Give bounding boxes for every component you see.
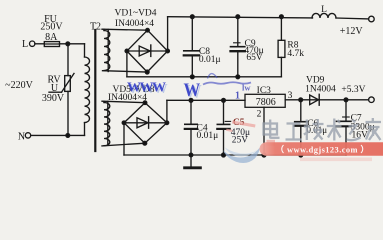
svg-text:3: 3 <box>288 91 293 101</box>
label VD5~VD8 <box>108 85 155 103</box>
label C9 value <box>244 39 263 63</box>
svg-text:390V: 390V <box>42 93 65 104</box>
watermark Chinese characters <box>264 118 382 141</box>
svg-text:7806: 7806 <box>256 97 276 108</box>
svg-text:4.7k: 4.7k <box>287 49 304 59</box>
svg-text:IC3: IC3 <box>257 86 272 96</box>
capacitor C4 <box>185 100 197 155</box>
node C9 bottom <box>236 75 240 79</box>
capacitor C8 <box>184 17 199 77</box>
wire bridge1 plus to top rail <box>167 17 169 51</box>
svg-text:1N4004: 1N4004 <box>305 85 336 95</box>
transformer T2 core <box>94 30 96 151</box>
bridge rectifier VD1~VD4 <box>125 28 169 74</box>
node fuse/RV junction <box>66 42 70 46</box>
bridge rectifier VD5~VD8 <box>122 101 169 145</box>
varistor RV lead bottom <box>67 91 69 135</box>
svg-text:65V: 65V <box>246 53 263 63</box>
wire fuse to transformer <box>60 44 85 57</box>
wire top rail <box>168 17 313 18</box>
svg-text:L: L <box>22 39 28 50</box>
wire inductor to +12V terminal <box>336 17 369 20</box>
wire IC3 pin2 to ground rail <box>263 107 265 155</box>
svg-text:lw: lw <box>242 83 251 93</box>
svg-text:25V: 25V <box>232 135 249 145</box>
node IC3 pin2 bottom <box>262 153 266 157</box>
node R8 top <box>280 15 284 19</box>
watermark pink smudge <box>300 158 372 162</box>
label VD1~VD4 <box>114 8 156 29</box>
node C8 bottom <box>190 75 194 79</box>
svg-text:0.01μ: 0.01μ <box>197 131 219 141</box>
watermark crescent swoosh <box>223 147 260 163</box>
wire L to fuse <box>35 43 44 45</box>
wire bottom ground rail <box>124 123 346 155</box>
terminal L <box>30 41 35 46</box>
terminal +12V <box>369 16 375 22</box>
regulator IC3 7806 <box>245 94 285 107</box>
label VD9 <box>305 75 336 94</box>
label C4 value <box>197 124 219 141</box>
node C5 bottom <box>222 153 226 157</box>
svg-text:2: 2 <box>257 110 262 120</box>
svg-text:（ www.dgjs123.com ）: （ www.dgjs123.com ） <box>276 145 370 155</box>
label RV U <box>47 74 61 94</box>
svg-text:L: L <box>321 5 327 15</box>
svg-text:8A: 8A <box>45 32 58 43</box>
label C6 value <box>307 119 328 135</box>
label C8 value <box>199 47 221 65</box>
transformer T2 secondary winding 1 <box>104 29 110 71</box>
transformer T2 secondary winding 2 <box>104 101 110 145</box>
svg-text:1: 1 <box>235 91 240 102</box>
terminal +5.3V <box>369 97 375 103</box>
wire secondary2 top to bridge2 <box>102 101 145 103</box>
capacitor C6 <box>295 100 307 155</box>
svg-text:~220V: ~220V <box>5 80 33 91</box>
svg-text:+12V: +12V <box>340 26 364 37</box>
svg-text:+5.3V: +5.3V <box>341 85 365 95</box>
node C5 top <box>222 98 226 102</box>
watermark blue arc <box>208 74 218 79</box>
label C5 value <box>231 118 250 145</box>
capacitor C5 <box>217 100 230 155</box>
capacitor C7 <box>337 100 352 155</box>
svg-text:250V: 250V <box>40 22 63 33</box>
varistor RV <box>49 73 74 92</box>
node C7 top <box>344 98 348 102</box>
watermark red banner www.dgjs123.com <box>260 142 383 156</box>
node C4 top <box>189 98 193 102</box>
svg-text:0.01μ: 0.01μ <box>199 55 221 65</box>
node C6 top <box>299 98 303 102</box>
resistor R8 <box>278 17 285 77</box>
label FU <box>40 14 63 43</box>
ground <box>185 155 201 168</box>
label C7 value <box>351 113 375 140</box>
node N/RV junction <box>66 134 70 138</box>
wire N to transformer <box>31 123 85 136</box>
transformer T2 primary winding <box>85 57 90 123</box>
svg-text:WWW: WWW <box>127 81 166 96</box>
terminal N <box>25 133 30 138</box>
svg-text:N: N <box>18 132 25 143</box>
varistor RV lead top <box>67 44 69 76</box>
wire secondary1 top to bridge1 <box>102 29 148 30</box>
node C8 top <box>190 15 194 19</box>
wire middle ground rail <box>127 51 282 77</box>
watermark blue wavy underline <box>203 82 251 84</box>
diode VD9 <box>310 94 320 105</box>
svg-text:IN4004×4: IN4004×4 <box>115 19 154 29</box>
node C9 top <box>236 15 240 19</box>
wire bridge2 plus to IC3 input rail <box>167 100 245 123</box>
node C6 bottom <box>299 153 303 157</box>
svg-text:T2: T2 <box>90 22 101 33</box>
wire secondary1 bottom to bridge1 <box>103 71 148 72</box>
node ground/C4 <box>189 153 193 157</box>
fuse FU <box>44 42 59 47</box>
capacitor C9 <box>231 17 245 77</box>
wire IC3 output <box>285 99 368 101</box>
svg-text:W: W <box>183 79 200 100</box>
svg-text:VD1~VD4: VD1~VD4 <box>114 8 156 18</box>
label R8 value <box>287 41 304 60</box>
watermark pink stroke over C5 <box>226 121 275 146</box>
wire secondary2 bottom to bridge2 <box>102 143 145 146</box>
inductor L <box>312 13 336 18</box>
